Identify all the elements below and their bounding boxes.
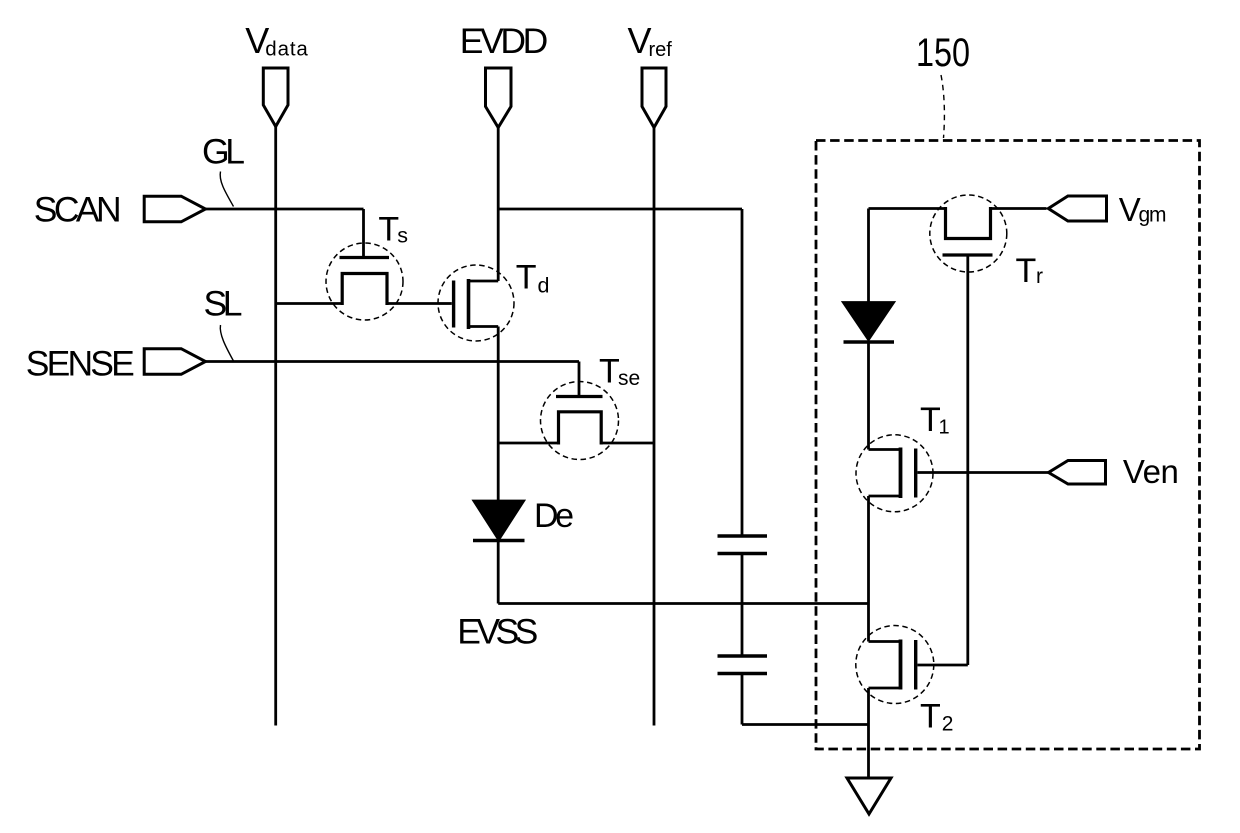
svg-text:ref: ref bbox=[649, 39, 673, 61]
svg-text:s: s bbox=[397, 224, 408, 248]
terminal SENSE arrow bbox=[144, 349, 205, 375]
svg-text:De: De bbox=[534, 497, 574, 535]
wire Vref vertical bbox=[653, 128, 656, 726]
leader GL bbox=[220, 172, 233, 207]
dashed box 150 bbox=[816, 141, 1200, 750]
leader SL bbox=[220, 325, 233, 361]
wire SENSE line bbox=[205, 360, 580, 363]
terminal Ven arrow bbox=[1049, 461, 1106, 485]
wire EVSS horizontal bbox=[498, 602, 868, 605]
diode De bbox=[473, 501, 525, 604]
wire Tse gate stem bbox=[578, 362, 581, 396]
svg-text:data: data bbox=[265, 38, 308, 61]
svg-text:d: d bbox=[538, 273, 550, 297]
terminal EVDD bbox=[486, 68, 512, 128]
svg-text:2: 2 bbox=[942, 713, 954, 736]
svg-text:GL: GL bbox=[202, 131, 245, 171]
terminal Vgm arrow bbox=[1048, 196, 1106, 221]
terminal Vref bbox=[642, 68, 666, 128]
svg-text:r: r bbox=[1036, 265, 1043, 288]
transistor Tse bbox=[498, 382, 654, 460]
transistor T2 bbox=[856, 626, 968, 704]
svg-text:Ven: Ven bbox=[1123, 453, 1179, 490]
wire EVDD branch right bbox=[498, 208, 742, 211]
transistor Tr bbox=[869, 195, 1047, 665]
wire capacitor drop bbox=[741, 209, 744, 536]
transistor Ts bbox=[276, 209, 439, 320]
svg-text:1: 1 bbox=[939, 417, 950, 439]
diode D (box) bbox=[844, 303, 895, 450]
capacitor C1 bbox=[718, 536, 768, 656]
wire EVDD mid vertical bbox=[497, 327, 500, 502]
svg-text:EVDD: EVDD bbox=[460, 21, 549, 61]
svg-text:T: T bbox=[599, 353, 620, 391]
wire EVDD vertical top bbox=[497, 128, 500, 282]
svg-text:T: T bbox=[1016, 252, 1037, 290]
capacitor C2 bbox=[718, 656, 768, 725]
svg-text:T: T bbox=[920, 698, 941, 736]
terminal SCAN arrow bbox=[144, 196, 205, 222]
wire box main vertical segment 1 bbox=[867, 209, 870, 304]
svg-text:V: V bbox=[1119, 191, 1141, 228]
wire SCAN line bbox=[205, 208, 364, 211]
svg-text:se: se bbox=[618, 367, 640, 390]
svg-text:SCAN: SCAN bbox=[34, 190, 122, 230]
svg-text:gm: gm bbox=[1139, 204, 1167, 227]
terminal Vdata bbox=[263, 68, 288, 127]
svg-text:SENSE: SENSE bbox=[26, 344, 135, 384]
svg-text:T: T bbox=[378, 211, 399, 249]
wire bottom to box bbox=[742, 723, 869, 726]
leader 150 bbox=[941, 75, 944, 138]
wire box main vertical segment 3 bbox=[867, 688, 870, 778]
wire box main vertical segment 2 bbox=[867, 496, 870, 642]
svg-text:T: T bbox=[516, 259, 537, 297]
ground bbox=[847, 778, 891, 814]
svg-text:SL: SL bbox=[204, 284, 243, 324]
transistor T1 bbox=[856, 435, 1049, 512]
wire Vdata vertical bbox=[274, 127, 277, 726]
svg-text:150: 150 bbox=[916, 30, 970, 75]
svg-text:EVSS: EVSS bbox=[457, 612, 538, 652]
transistor Td bbox=[438, 265, 514, 341]
